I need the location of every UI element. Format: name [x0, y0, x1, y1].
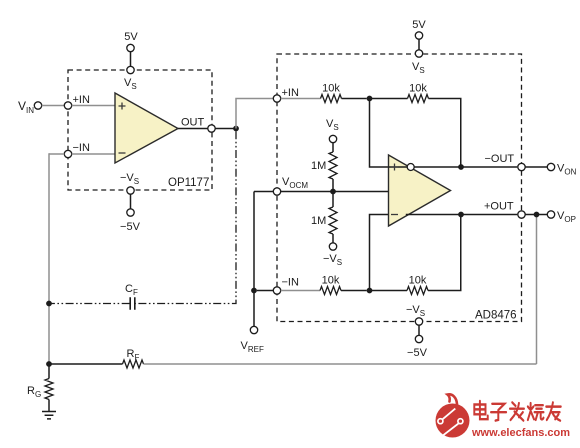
ground [42, 412, 56, 419]
wire 5V to VS pin [130, 52, 132, 67]
resistor R4 1M [329, 207, 337, 234]
wire -OUT pin to VON [525, 166, 547, 168]
op-amp U1 minus input sign [119, 152, 126, 154]
pin +OUT of U2 [518, 211, 525, 218]
pin +IN of U2 [273, 95, 280, 102]
wire VS to R3 [332, 143, 334, 152]
svg-text:5V: 5V [412, 19, 426, 31]
node F junction VREF to -IN row [251, 288, 257, 294]
diff-amp U2 triangle [389, 155, 451, 226]
svg-text:AD8476: AD8476 [475, 310, 517, 322]
node E junction VOCM divider midpoint [330, 189, 336, 195]
wire -VS to -5V [418, 325, 420, 335]
wire RF to VOP feedback node [144, 363, 537, 365]
wire OUT to node A [215, 128, 236, 130]
wire R6 to +OUT node [428, 215, 461, 291]
supply -5V terminal of U2 [415, 335, 422, 342]
node H junction -OUT [458, 164, 464, 170]
wire R5 to node G [341, 290, 367, 292]
svg-text:10k: 10k [409, 275, 427, 287]
pin -OUT of U2 [518, 163, 525, 170]
wire VIN to +IN [42, 105, 65, 107]
resistor R2 10k feedback [408, 95, 429, 103]
wire U1 output to OUT pin [178, 128, 208, 130]
watermark logo disc [436, 404, 470, 438]
node G junction [367, 288, 373, 294]
svg-text:1M: 1M [311, 160, 326, 172]
svg-text:10k: 10k [322, 275, 340, 287]
node D junction [367, 96, 373, 102]
wire node C to RF [49, 363, 123, 365]
pin -IN of U2 [273, 287, 280, 294]
supply -5V terminal of U1 [127, 209, 134, 216]
svg-text:OUT: OUT [181, 117, 205, 129]
svg-text:−OUT: −OUT [485, 153, 515, 165]
node J junction +OUT to RF feedback [534, 212, 540, 218]
wire VREF node to -IN [257, 290, 273, 292]
node C junction RG RF [46, 361, 52, 367]
wire -OUT row [414, 166, 517, 168]
svg-text:−IN: −IN [73, 142, 90, 154]
op-amp U1 plus input sign [119, 103, 126, 110]
node VON output terminal [547, 163, 554, 170]
node VREF input terminal [250, 326, 257, 333]
pin +IN of U1 [64, 102, 71, 109]
watermark logo stem [448, 394, 458, 404]
wire R3 to node E [332, 179, 334, 192]
svg-text:+IN: +IN [73, 94, 90, 106]
resistor R5 10k [320, 287, 341, 295]
pin VS of U2 [415, 50, 422, 57]
op-amp U1 dashed boundary OP1177 [68, 70, 212, 190]
U2 internal feedback node circle [407, 164, 414, 171]
supply -VS terminal of divider [329, 243, 336, 250]
wire node A up to +IN of U2 [236, 99, 273, 129]
svg-text:5V: 5V [124, 31, 138, 43]
wire RG to ground [48, 400, 50, 412]
wire VOCM to U2 [281, 191, 389, 193]
op-amp U1 triangle OP1177 [115, 93, 178, 163]
node VOP output terminal [547, 211, 554, 218]
resistor R1 10k [321, 95, 342, 103]
wire 5V to VS pin of U2 [418, 39, 420, 50]
wire CF feedback dash-dot from node A down [135, 131, 236, 303]
pin -IN of U1 [64, 150, 71, 157]
svg-text:10k: 10k [409, 83, 427, 95]
node B junction CF to RG/RF [46, 301, 52, 307]
watermark logo circuit trace [443, 409, 456, 420]
watermark text dianzi fashaoyou [474, 401, 487, 419]
svg-text:+OUT: +OUT [484, 201, 514, 213]
wire CF feedback dash-dot left segment [49, 303, 130, 305]
wire +IN to op-amp [72, 105, 115, 107]
wire node E to R4 [332, 192, 334, 208]
resistor R6 10k feedback [407, 287, 428, 295]
wire -IN feedback stub going left and down [49, 153, 64, 155]
capacitor CF [130, 297, 135, 309]
svg-text:+IN: +IN [282, 87, 299, 99]
U2 plus sign [391, 164, 398, 171]
wire VOCM stub to VREF column [254, 191, 273, 193]
resistor R3 1M [329, 152, 337, 179]
wire -IN to R5 [281, 290, 320, 292]
wire R4 to -VS [332, 234, 334, 243]
wire R1 to node D [342, 98, 367, 100]
wire node G to R6 [370, 290, 408, 292]
wire node D down to U2 noninverting input [370, 99, 407, 168]
svg-text:www.elecfans.com: www.elecfans.com [471, 427, 570, 439]
svg-text:−5V: −5V [407, 347, 428, 359]
pin OUT of U1 [208, 125, 215, 132]
wire node D to R2 [370, 98, 408, 100]
wire +OUT pin to VOP [525, 214, 547, 216]
svg-text:OP1177: OP1177 [168, 177, 209, 189]
pin VS of U1 [127, 66, 134, 73]
diff-amp U2 dashed boundary AD8476 [277, 54, 522, 322]
svg-text:−5V: −5V [120, 221, 141, 233]
pin VOCM of U2 [273, 188, 280, 195]
resistor RF [123, 360, 144, 368]
node I junction +OUT [458, 212, 464, 218]
svg-text:10k: 10k [322, 83, 340, 95]
U2 noninverting input line inside triangle [389, 166, 408, 168]
wire node G up to U2 inverting input [370, 215, 389, 291]
wire -VS to -5V [130, 194, 132, 209]
wire R2 to -OUT node [429, 99, 461, 168]
U2 minus sign [391, 214, 398, 216]
wire +OUT row [406, 214, 518, 216]
resistor RG [48, 364, 50, 379]
wire -IN to op-amp [72, 153, 115, 155]
wire +IN to R1 [281, 98, 321, 100]
node A junction at U1 output [233, 126, 239, 132]
svg-text:1M: 1M [311, 215, 326, 227]
svg-text:−IN: −IN [282, 277, 299, 289]
